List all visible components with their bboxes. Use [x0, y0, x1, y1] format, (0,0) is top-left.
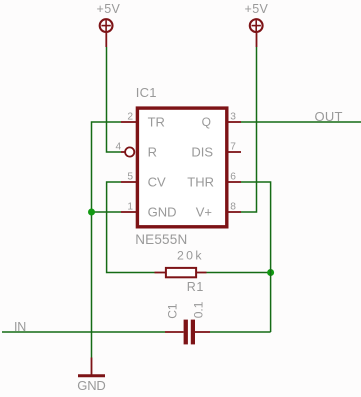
svg-text:TR: TR [148, 115, 165, 130]
svg-text:V+: V+ [196, 205, 212, 220]
capacitor C1 right plate [191, 320, 195, 345]
capacitor C1 right pin [195, 331, 210, 333]
svg-text:7: 7 [230, 142, 236, 153]
svg-text:2: 2 [127, 112, 133, 123]
pin name Q [202, 115, 211, 129]
svg-text:+5V: +5V [245, 2, 269, 16]
pin name CV [148, 175, 166, 190]
pin name GND [148, 205, 177, 220]
pin 2 TR stub [121, 121, 136, 123]
pin name V+ [196, 205, 212, 220]
label C1 (rotated) [165, 303, 179, 319]
svg-text:3: 3 [230, 112, 236, 123]
resistor R1 right pin [196, 272, 207, 274]
supply +5V label (left) [97, 2, 121, 16]
label OUT [315, 109, 343, 124]
label R1 [187, 280, 204, 294]
ground bar [78, 374, 105, 377]
svg-text:5: 5 [127, 172, 133, 183]
pin number 1 [127, 202, 133, 213]
pin 1 GND stub [121, 211, 136, 213]
pin name R [148, 145, 157, 160]
pin number 7 [230, 142, 236, 153]
wire GND pin1 to vertical [92, 211, 122, 213]
svg-text:+5V: +5V [97, 2, 121, 16]
svg-text:GND: GND [77, 378, 106, 393]
pin number 8 [230, 202, 236, 213]
supply symbol +5V P2 (right) [250, 19, 263, 47]
wire capacitor right to junction vertical [210, 331, 271, 333]
svg-text:R: R [148, 145, 157, 160]
svg-text:GND: GND [148, 205, 177, 220]
capacitor C1 left plate [184, 320, 188, 345]
wire THR net: pin6 right then down [241, 182, 271, 332]
svg-text:NE555N: NE555N [135, 232, 187, 247]
resistor R1 body [166, 268, 196, 277]
pin 4 inversion bubble [125, 147, 134, 156]
junction dot at pin1 net [88, 209, 95, 216]
pin 5 CV stub [121, 181, 136, 183]
svg-text:THR: THR [187, 175, 214, 190]
junction dot right of resistor [267, 269, 274, 276]
resistor R1 left pin [155, 272, 167, 274]
svg-text:Q: Q [202, 115, 211, 129]
svg-text:20k: 20k [177, 249, 202, 263]
wire CV net: pin5 left, down, to resistor [107, 182, 155, 273]
svg-text:1: 1 [127, 202, 133, 213]
capacitor C1 left pin [165, 331, 184, 333]
wire OUT net from pin3 to right edge [241, 121, 361, 123]
label GND [77, 378, 106, 393]
svg-text:6: 6 [230, 172, 236, 183]
supply +5V label (right) [245, 2, 269, 16]
svg-text:DIS: DIS [191, 145, 213, 160]
pin name DIS [191, 145, 213, 160]
label IN [14, 320, 26, 334]
pin 8 V+ stub [229, 211, 242, 213]
wire V+ net: pin8 to +5V right vertical [241, 47, 257, 212]
wire TR net: pin2 left then down to IN/GND [92, 122, 122, 358]
pin 4 R stub [121, 151, 125, 153]
label NE555N [135, 232, 187, 247]
svg-text:CV: CV [148, 175, 166, 190]
pin name THR [187, 175, 214, 190]
pin number 5 [127, 172, 133, 183]
IC1 NE555N body U1 [137, 108, 226, 227]
svg-text:4: 4 [116, 141, 122, 152]
svg-text:R1: R1 [187, 280, 204, 294]
pin name TR [148, 115, 165, 130]
wire +5V left down to reset pin [107, 47, 122, 152]
wire resistor right to junction [207, 272, 271, 274]
pin number 4 [116, 141, 122, 152]
pin number 2 [127, 112, 133, 123]
svg-text:OUT: OUT [315, 109, 343, 124]
pin number 3 [230, 112, 236, 123]
pin 6 THR stub [229, 181, 242, 183]
svg-text:8: 8 [230, 202, 236, 213]
svg-text:IC1: IC1 [136, 85, 157, 100]
label IC1 [136, 85, 157, 100]
supply symbol +5V P1 (left) [100, 19, 113, 47]
svg-text:IN: IN [14, 320, 26, 334]
pin 7 DIS stub [229, 151, 242, 153]
svg-text:C1: C1 [165, 303, 179, 319]
pin number 6 [230, 172, 236, 183]
pin 3 Q stub [229, 121, 242, 123]
value 20k [177, 249, 202, 263]
value 0.1 (rotated) [192, 301, 206, 318]
svg-text:0.1: 0.1 [192, 301, 206, 318]
wire IN net horizontal [2, 331, 165, 333]
ground stub [91, 358, 93, 376]
